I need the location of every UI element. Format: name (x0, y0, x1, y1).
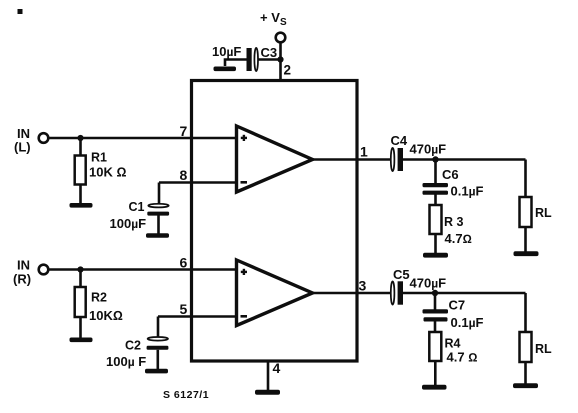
wire C3 to ground (225, 60, 247, 67)
svg-text:RL: RL (535, 206, 552, 220)
svg-text:RL: RL (535, 342, 552, 356)
svg-text:470µF: 470µF (410, 276, 447, 291)
resistor R3 (430, 205, 442, 234)
wire junction to C6 (434, 160, 437, 184)
wire RL lower to ground (524, 362, 527, 384)
svg-text:C5: C5 (393, 267, 410, 282)
svg-text:S 6127/1: S 6127/1 (163, 389, 209, 401)
node input L junction (77, 135, 83, 141)
svg-text:1: 1 (360, 144, 368, 160)
wire R3 to ground (434, 234, 437, 253)
svg-text:6: 6 (180, 255, 188, 271)
input terminal R (39, 265, 49, 275)
svg-text:+ V: + V (260, 10, 280, 25)
resistor R4 (429, 332, 441, 361)
wire C5 to RL (403, 292, 526, 295)
svg-text:(L): (L) (14, 140, 31, 155)
wire supply to pin 2 (279, 42, 282, 80)
ground (R3) (423, 253, 448, 258)
wire C4 to RL (403, 158, 526, 161)
ground (R2) (70, 338, 93, 343)
svg-text:R 3: R 3 (444, 215, 464, 229)
node supply junction (277, 56, 283, 62)
svg-text:5: 5 (180, 301, 188, 317)
wire C3 to junction (257, 58, 281, 61)
svg-text:7: 7 (180, 123, 188, 139)
resistor R1 (75, 156, 86, 185)
ground (C2) (145, 369, 168, 374)
wire pin 6 (48, 268, 237, 271)
svg-text:4: 4 (273, 360, 281, 376)
svg-text:R2: R2 (91, 291, 107, 305)
input terminal L (39, 133, 49, 143)
node output 1 junction (432, 156, 438, 162)
wire pin 5 (158, 315, 238, 318)
wire pin 8 (159, 181, 238, 184)
resistor RL (lower) (520, 332, 532, 362)
svg-text:(R): (R) (13, 272, 31, 287)
svg-text:R1: R1 (91, 151, 107, 165)
ground (RL upper) (514, 251, 539, 256)
supply terminal +Vs (276, 33, 286, 43)
resistor RL (upper) (520, 197, 532, 227)
wire junction to C7 (434, 293, 437, 310)
wire C2 to ground (157, 350, 160, 369)
wire R4 to ground (434, 361, 437, 385)
svg-text:C2: C2 (125, 339, 141, 353)
svg-text:10K Ω: 10K Ω (89, 165, 126, 180)
svg-text:C4: C4 (391, 133, 408, 148)
IC box (192, 81, 358, 362)
capacitor C1 (148, 204, 168, 208)
op-amp A1 (237, 126, 313, 192)
wire junction to R2 (79, 270, 82, 289)
capacitor C5 (391, 281, 395, 304)
ground (R1) (70, 203, 93, 208)
svg-text:100µ F: 100µ F (106, 354, 146, 369)
wire pin8 to C1 (158, 183, 161, 205)
svg-text:0.1µF: 0.1µF (451, 184, 484, 199)
node input R junction (77, 266, 83, 272)
ground (R4) (422, 385, 447, 390)
capacitor C2 (148, 337, 168, 341)
svg-text:S: S (280, 17, 287, 28)
svg-text:4.7 Ω: 4.7 Ω (447, 350, 478, 365)
ground (pin 4) (255, 390, 280, 395)
wire C6 to R3 (434, 195, 437, 206)
svg-text:100µF: 100µF (110, 216, 147, 231)
svg-text:IN: IN (17, 258, 30, 273)
wire output pin 1 (313, 158, 391, 161)
svg-text:2: 2 (284, 63, 292, 78)
wire R2 to ground (79, 317, 82, 338)
wire C1 to ground (157, 216, 160, 234)
wire R1 to ground (79, 185, 82, 204)
wire pin 4 to ground (267, 361, 270, 390)
capacitor C4 (391, 148, 395, 171)
capacitor C6 (423, 183, 449, 187)
capacitor C7 (423, 309, 449, 313)
wire output pin 3 (313, 292, 391, 295)
wire junction to R1 (79, 138, 82, 156)
svg-text:C7: C7 (449, 298, 466, 313)
svg-text:R4: R4 (445, 337, 461, 351)
svg-text:8: 8 (180, 167, 188, 183)
svg-text:C6: C6 (442, 167, 459, 182)
capacitor C3 (247, 48, 252, 71)
svg-text:4.7Ω: 4.7Ω (445, 231, 472, 246)
svg-text:0.1µF: 0.1µF (451, 315, 484, 330)
wire to RL upper (524, 160, 527, 198)
svg-text:C3: C3 (261, 45, 278, 60)
wire pin5 to C2 (157, 317, 160, 338)
wire RL to ground (524, 227, 527, 252)
svg-text:10KΩ: 10KΩ (89, 308, 123, 323)
ground (C1) (146, 233, 169, 238)
svg-text:C1: C1 (129, 200, 145, 214)
svg-text:470µF: 470µF (410, 142, 447, 157)
svg-text:10µF: 10µF (212, 44, 241, 59)
svg-text:3: 3 (359, 278, 367, 294)
resistor R2 (75, 287, 86, 317)
page mark (small black square) (18, 9, 23, 14)
op-amp A2 (237, 260, 313, 326)
ground (C3) (214, 67, 237, 72)
wire pin 7 (48, 137, 237, 140)
ground (RL lower) (513, 383, 538, 388)
wire C7 to R4 (434, 321, 437, 333)
node output 3 junction (432, 290, 438, 296)
wire to RL lower (524, 293, 527, 333)
